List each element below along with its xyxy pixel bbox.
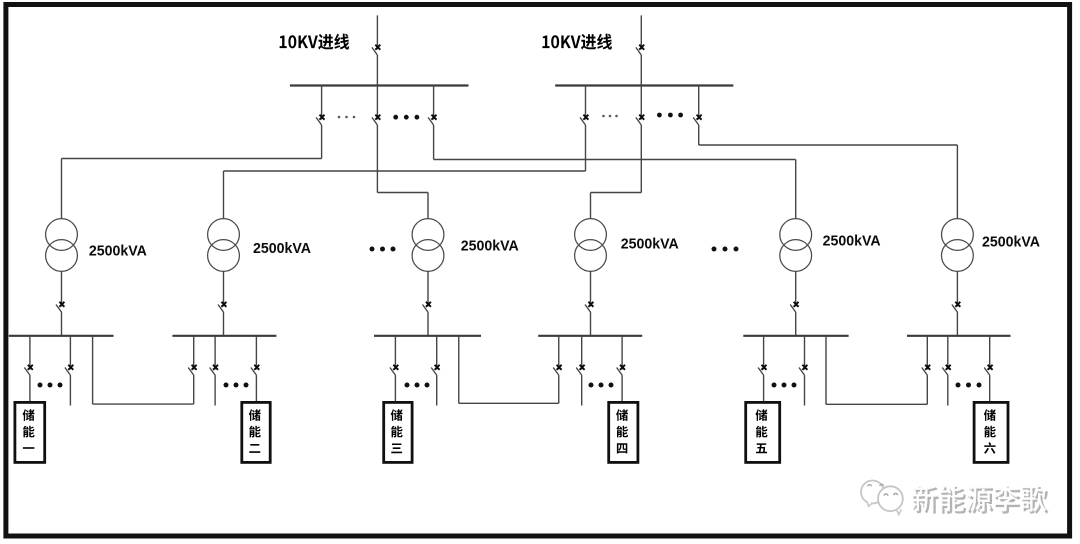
wire: transformer T4 secondary down: [590, 271, 592, 307]
wire: LV bus4 spare feeder upper: [581, 336, 583, 370]
breaker QF4 on HV bus1 center feeder: [372, 115, 380, 125]
breaker on LV bus6 storage feeder: [984, 365, 992, 375]
breaker on LV bus4 storage feeder: [617, 365, 625, 375]
wire: 10kV incoming line 2 upper segment: [640, 15, 642, 49]
wire: incoming line 1 to HV bus 1: [376, 55, 378, 86]
ellipsis dots on LV bus4: [589, 383, 614, 388]
wire: LV bus3 spare feeder upper: [436, 336, 438, 370]
breaker on T4 secondary: [585, 302, 593, 312]
wire: jog to transformer T3: [377, 192, 428, 194]
wire: LV bus2 tie riser upper: [193, 336, 195, 370]
wire: LV bus6 tie riser lower: [926, 375, 928, 404]
wire: jog to transformer T4: [591, 192, 642, 194]
ellipsis dots on LV bus3: [405, 383, 430, 388]
wire: LV bus6 tie riser upper: [926, 336, 928, 370]
wire: down to transformer T4: [590, 193, 592, 220]
wire: LV bus6 storage feeder upper: [989, 336, 991, 370]
wire: HV bus2 right drop upper: [698, 86, 700, 120]
wire: down to transformer T5: [795, 160, 797, 220]
svg-text:2500kVA: 2500kVA: [621, 235, 679, 252]
wire: LV bus5 spare feeder lower: [804, 375, 806, 405]
energy storage unit box 储能六 (storage 6): [974, 402, 1008, 462]
breaker on T2 secondary: [218, 302, 226, 312]
breaker QF8 on HV bus2 right feeder: [693, 115, 701, 125]
breaker on LV bus2 storage feeder: [251, 365, 259, 375]
transformer T2 (2500kVA): [208, 219, 240, 272]
wire: LV bus5 tie riser upper: [825, 336, 827, 405]
breaker on LV bus3 storage feeder: [390, 365, 398, 375]
HV bus 2: [555, 84, 733, 86]
wire: transformer T5 secondary down: [795, 271, 797, 307]
breaker on LV bus4 tie riser: [553, 365, 561, 375]
wire: transformer T6 secondary down: [956, 271, 958, 307]
wire: HV bus1 center drop upper (incoming line 1 through): [376, 86, 378, 120]
breaker QF6 on HV bus2 left feeder: [580, 115, 588, 125]
breaker on T6 secondary: [952, 302, 960, 312]
LV bus 1: [9, 335, 114, 337]
wire: HV bus2 right feeder to jog: [698, 125, 700, 145]
wire: HV bus2 left drop upper: [585, 86, 587, 120]
watermark: WeChat logo icon: [861, 481, 903, 515]
wire: LV bus2 storage feeder lower: [255, 375, 257, 402]
energy storage unit box 储能二 (storage 2): [242, 402, 270, 462]
wire: HV bus1 right drop upper: [433, 86, 435, 120]
label: storage unit 4 text 储能四: [616, 409, 628, 453]
breaker QF1 on incoming line 1: [372, 45, 380, 55]
LV bus 4: [538, 335, 642, 337]
transformer T1 (2500kVA): [46, 219, 78, 272]
wire: down to transformer T6: [956, 145, 958, 219]
energy storage unit box 储能四 (storage 4): [609, 402, 638, 462]
wire: LV bus2 storage feeder upper: [255, 336, 257, 370]
svg-text:2500kVA: 2500kVA: [253, 240, 311, 257]
wire: jog to transformer T1: [62, 158, 322, 160]
breaker on LV bus5 storage feeder: [758, 365, 766, 375]
ellipsis dots on LV bus6: [956, 383, 982, 388]
wire: transformer T3 secondary down: [427, 271, 429, 307]
wire: LV bus3 storage feeder lower: [394, 375, 396, 402]
wire: HV bus1 right feeder to jog: [433, 125, 435, 160]
wire: HV bus1 left feeder to jog: [321, 125, 323, 159]
transformer T5 (2500kVA): [780, 219, 812, 272]
wire: LV bus4 spare feeder lower: [581, 375, 583, 405]
breaker QF2 on incoming line 2: [636, 45, 644, 55]
wire: LV bus5 storage feeder upper: [763, 336, 765, 370]
label: storage unit 1 text 储能一: [23, 409, 35, 449]
wire: jog to transformer T6: [699, 144, 958, 146]
wire: transformer T2 secondary down: [223, 271, 225, 307]
wire: LV bus1 storage feeder lower: [29, 375, 31, 402]
wire: T4 secondary to LV bus: [590, 312, 592, 336]
wire: LV bus3 storage feeder upper: [394, 336, 396, 370]
wire: LV bus1 tie riser upper: [92, 336, 94, 404]
breaker on LV bus6 tie riser: [922, 365, 930, 375]
ellipsis dots between transformer groups (left): [370, 247, 396, 252]
svg-text:2500kVA: 2500kVA: [461, 238, 519, 255]
svg-text:2500kVA: 2500kVA: [89, 243, 147, 260]
wire: T3 secondary to LV bus: [427, 312, 429, 336]
label: storage unit 2 text 储能二: [249, 409, 261, 453]
label: storage unit 6 text 储能六: [984, 409, 996, 454]
breaker on LV bus3 spare feeder: [431, 365, 439, 375]
transformer T6 (2500kVA): [942, 219, 974, 272]
breaker on LV bus6 spare feeder: [942, 365, 950, 375]
svg-text:2500kVA: 2500kVA: [982, 233, 1040, 250]
wire: T1 secondary to LV bus: [61, 312, 63, 336]
ellipsis dots on LV bus5: [772, 383, 797, 388]
transformer T3 (2500kVA): [412, 219, 444, 272]
wire: LV bus4 storage feeder upper: [621, 336, 623, 370]
wire: LV bus6 storage feeder lower: [989, 375, 991, 402]
ellipsis dots (bold) on HV bus2: [657, 113, 683, 118]
HV bus 1: [290, 84, 469, 86]
breaker on T5 secondary: [790, 302, 798, 312]
wire: jog to transformer T5: [434, 159, 796, 161]
breaker on T1 secondary: [56, 302, 64, 312]
wire: LV bus5 storage feeder lower: [763, 375, 765, 402]
watermark: text 新能源李歌: [911, 484, 1049, 513]
wire: LV bus4 tie riser upper: [558, 336, 560, 370]
breaker QF3 on HV bus1 left feeder: [316, 115, 324, 125]
wire: T6 secondary to LV bus: [956, 312, 958, 336]
transformer T4 (2500kVA): [575, 219, 607, 272]
LV bus 2: [172, 335, 276, 337]
wire: LV bus1 storage feeder upper: [29, 336, 31, 370]
label: storage unit 5 text 储能五: [756, 409, 768, 453]
energy storage unit box 储能五 (storage 5): [746, 402, 780, 462]
energy storage unit box 储能一 (storage 1): [15, 402, 45, 462]
breaker on T3 secondary: [423, 302, 431, 312]
tie line between LV bus3 and LV bus4: [459, 402, 559, 404]
ellipsis dots (bold) on HV bus1: [393, 115, 419, 120]
wire: T2 secondary to LV bus: [223, 312, 225, 336]
LV bus 3: [374, 335, 481, 337]
ellipsis dots between transformer groups (right): [712, 247, 739, 252]
wire: 10kV incoming line 1 upper segment: [376, 15, 378, 49]
breaker QF7 on HV bus2 center feeder: [636, 115, 644, 125]
wire: down to transformer T2: [223, 171, 225, 219]
LV bus 5: [743, 335, 848, 337]
breaker on LV bus1 storage feeder: [24, 365, 32, 375]
wire: LV bus4 storage feeder lower: [621, 375, 623, 402]
breaker on LV bus2 spare feeder: [210, 365, 218, 375]
tie line between LV bus5 and LV bus6: [826, 403, 927, 405]
ellipsis dots on LV bus1: [38, 383, 63, 388]
ellipsis dots (small) on HV bus1: [338, 116, 356, 119]
wire: HV bus2 center drop upper (incoming line 2 through): [640, 86, 642, 120]
wire: HV bus1 center feeder down: [376, 125, 378, 193]
svg-text:2500kVA: 2500kVA: [823, 233, 881, 250]
label: 10KV incoming line 2 text: [542, 34, 612, 50]
label: 10KV incoming line 1 text: [280, 34, 350, 50]
wire: LV bus6 spare feeder upper: [947, 336, 949, 370]
wire: jog to transformer T2: [224, 170, 586, 172]
wire: LV bus6 spare feeder lower: [947, 375, 949, 405]
wire: HV bus2 center feeder down: [640, 125, 642, 193]
wire: LV bus1 spare feeder lower: [69, 375, 71, 405]
wire: LV bus2 spare feeder upper: [214, 336, 216, 370]
LV bus 6: [907, 335, 1011, 337]
breaker QF5 on HV bus1 right feeder: [428, 115, 436, 125]
energy storage unit box 储能三 (storage 3): [384, 402, 412, 462]
breaker on LV bus2 tie riser: [188, 365, 196, 375]
wire: HV bus1 left drop upper: [321, 86, 323, 120]
wire: transformer T1 secondary down: [61, 271, 63, 307]
breaker on LV bus5 spare feeder: [799, 365, 807, 375]
wire: LV bus4 tie riser lower: [558, 375, 560, 403]
wire: LV bus5 spare feeder upper: [804, 336, 806, 370]
wire: LV bus1 spare feeder upper: [69, 336, 71, 370]
wire: LV bus2 tie riser lower: [193, 375, 195, 404]
wire: LV bus2 spare feeder lower: [214, 375, 216, 405]
wire: down to transformer T3: [427, 193, 429, 220]
label: storage unit 3 text 储能三: [391, 409, 403, 453]
wire: HV bus2 left feeder to jog: [585, 125, 587, 171]
ellipsis dots on LV bus2: [224, 383, 249, 388]
breaker on LV bus4 spare feeder: [576, 365, 584, 375]
ellipsis dots (small) on HV bus2: [602, 115, 618, 118]
breaker on LV bus1 spare feeder: [65, 365, 73, 375]
tie line between LV bus1 and LV bus2: [93, 403, 194, 405]
wire: LV bus3 spare feeder lower: [436, 375, 438, 405]
wire: down to transformer T1: [61, 159, 63, 220]
wire: incoming line 2 to HV bus 2: [640, 55, 642, 86]
wire: LV bus3 tie riser upper: [458, 336, 460, 404]
wire: T5 secondary to LV bus: [795, 312, 797, 336]
